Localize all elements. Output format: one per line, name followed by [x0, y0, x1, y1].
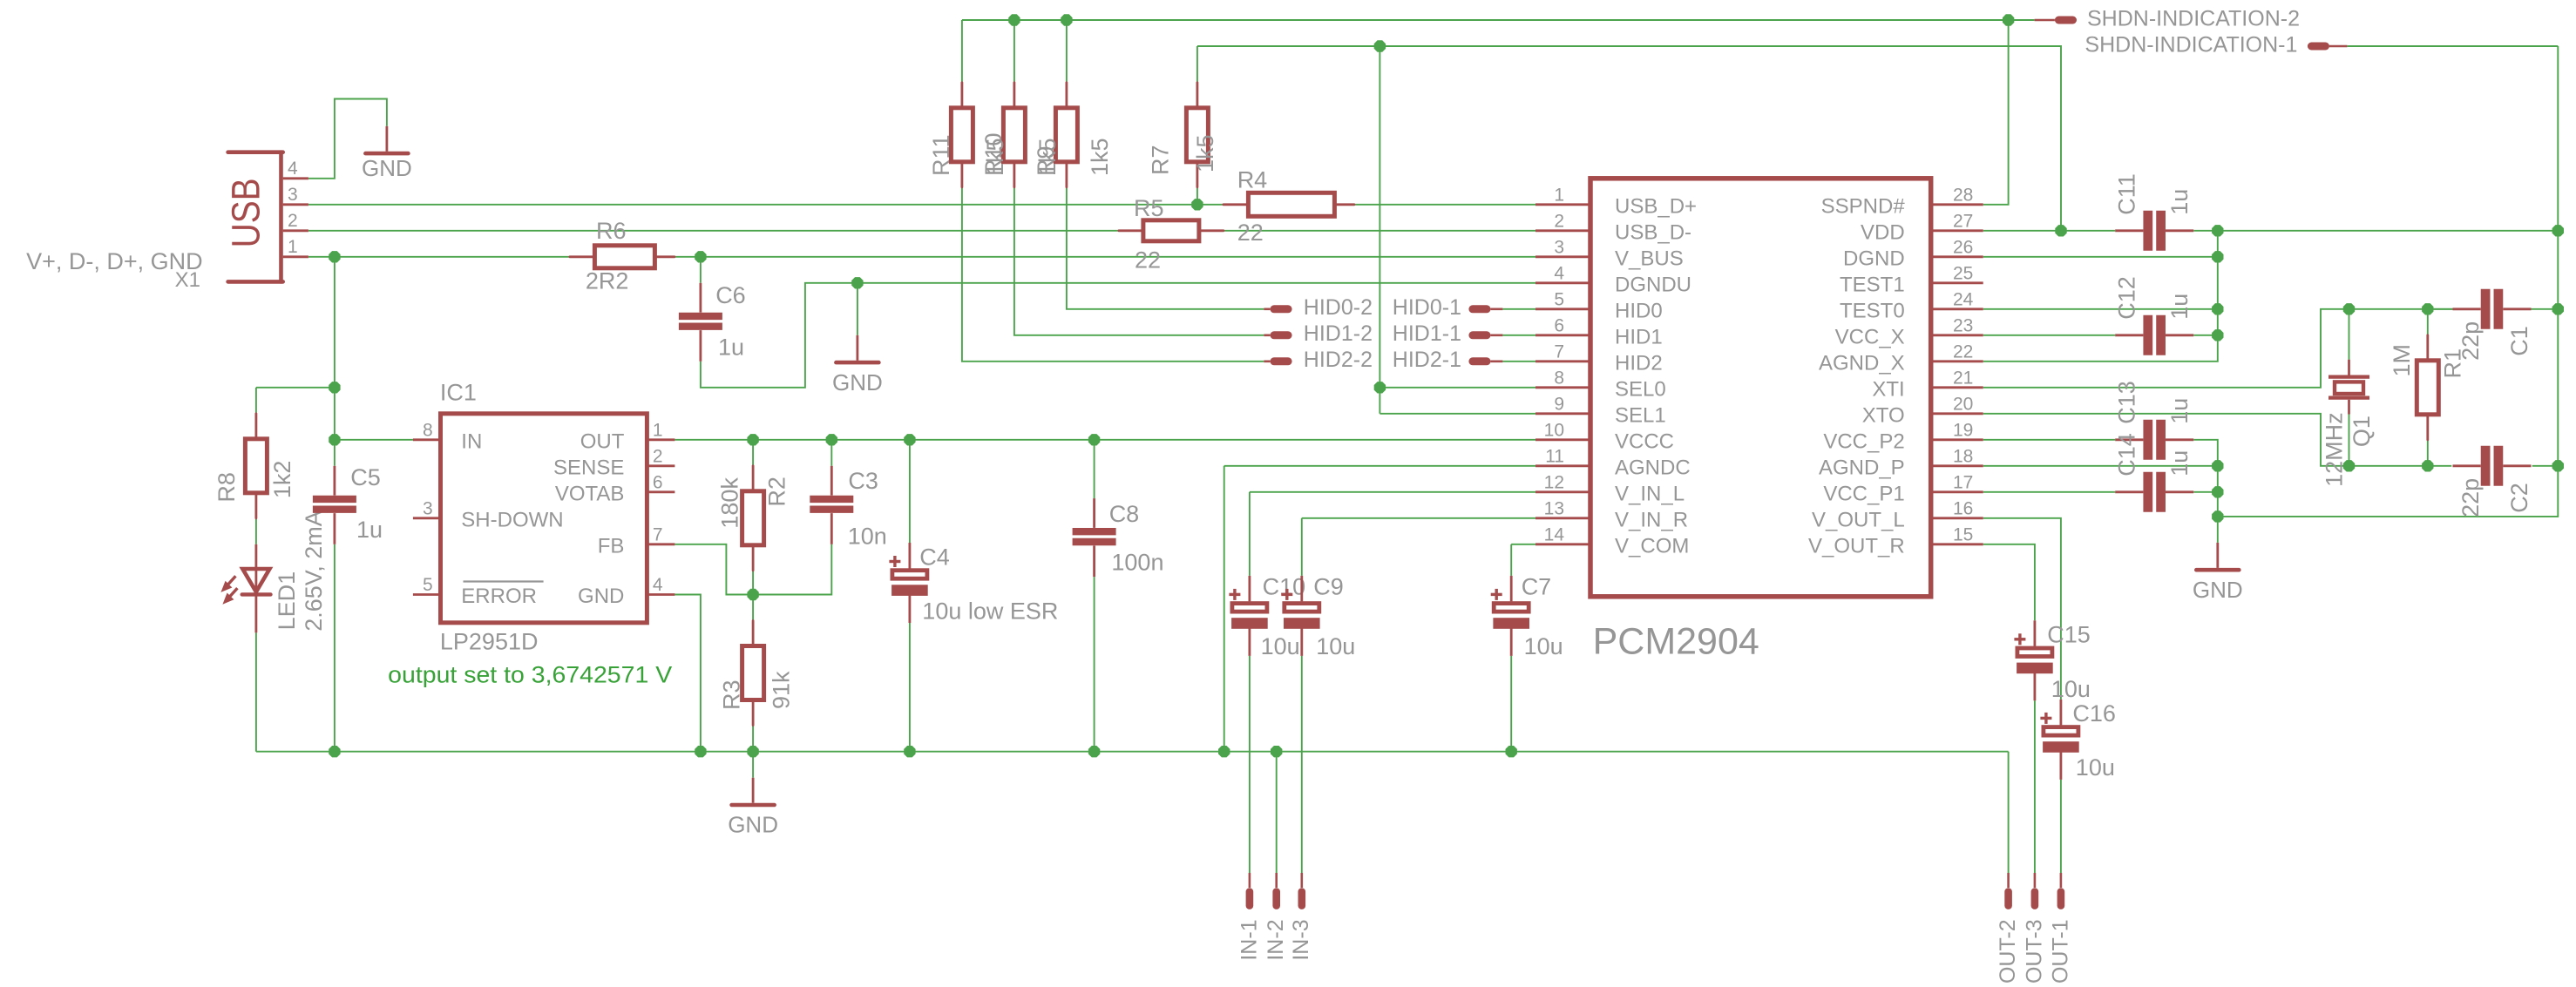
svg-text:17: 17 — [1953, 472, 1973, 492]
svg-text:HID1: HID1 — [1615, 326, 1663, 349]
svg-text:VCC_P2: VCC_P2 — [1823, 430, 1904, 454]
svg-text:18: 18 — [1953, 446, 1973, 466]
svg-text:PCM2904: PCM2904 — [1593, 621, 1759, 663]
svg-text:V_OUT_L: V_OUT_L — [1812, 509, 1905, 532]
svg-text:HID0: HID0 — [1615, 300, 1663, 323]
svg-text:R7: R7 — [1147, 145, 1173, 175]
svg-text:4: 4 — [653, 575, 663, 595]
svg-text:22p: 22p — [2457, 478, 2484, 517]
svg-text:3: 3 — [288, 185, 298, 205]
svg-text:1u: 1u — [2166, 294, 2193, 320]
svg-text:XTO: XTO — [1862, 404, 1905, 428]
svg-text:IN-1: IN-1 — [1237, 919, 1261, 960]
svg-text:22p: 22p — [2457, 321, 2484, 361]
svg-text:10n: 10n — [848, 524, 887, 550]
svg-text:10u: 10u — [1316, 633, 1355, 659]
svg-text:GND: GND — [832, 369, 883, 395]
svg-text:LP2951D: LP2951D — [440, 629, 539, 655]
svg-text:OUT-2: OUT-2 — [1996, 919, 2020, 983]
svg-text:DGNDU: DGNDU — [1615, 274, 1691, 297]
svg-text:20: 20 — [1953, 394, 1973, 414]
svg-text:HID2: HID2 — [1615, 352, 1663, 375]
svg-text:C4: C4 — [919, 544, 950, 571]
svg-text:VCC_X: VCC_X — [1835, 326, 1905, 349]
svg-text:2.65V, 2mA: 2.65V, 2mA — [301, 510, 327, 632]
svg-text:DGND: DGND — [1843, 247, 1905, 271]
svg-text:TEST0: TEST0 — [1840, 300, 1905, 323]
svg-text:C2: C2 — [2506, 483, 2532, 513]
svg-text:GND: GND — [362, 155, 412, 181]
svg-text:C13: C13 — [2114, 381, 2140, 424]
svg-text:R5: R5 — [1134, 195, 1164, 221]
svg-text:IN: IN — [461, 429, 482, 453]
svg-text:C1: C1 — [2506, 326, 2532, 356]
svg-text:V_OUT_R: V_OUT_R — [1808, 535, 1905, 558]
svg-text:C6: C6 — [715, 282, 746, 308]
svg-text:11: 11 — [1545, 446, 1564, 466]
svg-text:1u: 1u — [2166, 450, 2193, 477]
svg-text:13: 13 — [1544, 498, 1564, 518]
svg-text:2: 2 — [1554, 211, 1564, 231]
svg-text:XTI: XTI — [1872, 378, 1904, 402]
svg-text:R2: R2 — [764, 477, 790, 507]
svg-text:24: 24 — [1953, 289, 1974, 309]
svg-text:C3: C3 — [848, 468, 878, 494]
svg-text:1u: 1u — [2166, 398, 2193, 424]
svg-text:C7: C7 — [1522, 574, 1552, 600]
svg-text:AGND_P: AGND_P — [1819, 456, 1905, 480]
svg-text:19: 19 — [1953, 420, 1973, 440]
svg-text:1u: 1u — [356, 517, 383, 543]
svg-text:C8: C8 — [1109, 501, 1140, 527]
svg-text:1u: 1u — [718, 335, 744, 361]
svg-text:USB_D+: USB_D+ — [1615, 195, 1697, 219]
svg-text:C14: C14 — [2114, 433, 2140, 477]
svg-text:USB_D-: USB_D- — [1615, 221, 1691, 245]
svg-text:R11: R11 — [928, 134, 954, 176]
svg-text:GND: GND — [578, 585, 624, 608]
svg-text:VDD: VDD — [1861, 221, 1905, 245]
svg-text:16: 16 — [1953, 498, 1973, 518]
svg-text:SSPND#: SSPND# — [1821, 195, 1906, 219]
svg-text:V_BUS: V_BUS — [1615, 247, 1684, 271]
svg-text:VOTAB: VOTAB — [555, 482, 625, 505]
svg-text:1k5: 1k5 — [1087, 138, 1113, 176]
svg-text:HID2-1: HID2-1 — [1393, 348, 1461, 372]
svg-text:FB: FB — [598, 534, 625, 558]
svg-text:AGNDC: AGNDC — [1615, 456, 1691, 480]
svg-text:C5: C5 — [350, 464, 381, 490]
svg-text:OUT-3: OUT-3 — [2022, 919, 2046, 983]
svg-text:2: 2 — [288, 211, 298, 231]
svg-text:LED1: LED1 — [274, 571, 300, 631]
svg-text:1M: 1M — [2389, 344, 2415, 377]
svg-text:22: 22 — [1237, 220, 1264, 246]
svg-text:1: 1 — [288, 237, 298, 257]
svg-text:5: 5 — [423, 575, 433, 595]
svg-text:SHDN-INDICATION-2: SHDN-INDICATION-2 — [2087, 6, 2300, 30]
svg-text:10u: 10u — [1524, 633, 1563, 659]
svg-text:9: 9 — [1554, 394, 1564, 414]
svg-text:OUT-1: OUT-1 — [2048, 919, 2072, 983]
svg-text:output set to 3,6742571 V: output set to 3,6742571 V — [388, 662, 672, 688]
svg-text:10: 10 — [1544, 420, 1564, 440]
svg-text:V_IN_L: V_IN_L — [1615, 483, 1685, 506]
svg-text:91k: 91k — [768, 671, 794, 709]
svg-text:VCC_P1: VCC_P1 — [1823, 483, 1904, 506]
svg-text:10u: 10u — [2051, 676, 2091, 702]
svg-text:6: 6 — [1554, 315, 1564, 335]
svg-text:GND: GND — [728, 812, 778, 838]
svg-text:SHDN-INDICATION-1: SHDN-INDICATION-1 — [2085, 32, 2297, 57]
svg-text:1u: 1u — [2166, 189, 2193, 215]
svg-text:IN-2: IN-2 — [1264, 919, 1288, 960]
svg-text:SH-DOWN: SH-DOWN — [461, 508, 563, 531]
svg-text:25: 25 — [1953, 263, 1973, 283]
svg-text:VCCC: VCCC — [1615, 430, 1674, 454]
svg-text:C15: C15 — [2047, 622, 2091, 648]
svg-text:SEL1: SEL1 — [1615, 404, 1666, 428]
svg-text:8: 8 — [1554, 368, 1564, 388]
svg-text:HID1-1: HID1-1 — [1393, 321, 1461, 346]
svg-text:28: 28 — [1953, 185, 1973, 205]
svg-text:10u low ESR: 10u low ESR — [922, 598, 1058, 625]
svg-text:C11: C11 — [2114, 173, 2140, 215]
svg-text:ERROR: ERROR — [461, 585, 537, 608]
svg-text:12: 12 — [1544, 472, 1564, 492]
svg-text:1: 1 — [1554, 185, 1564, 205]
svg-text:R4: R4 — [1237, 167, 1268, 193]
svg-text:4: 4 — [1554, 263, 1564, 283]
svg-text:HID1-2: HID1-2 — [1304, 321, 1373, 346]
svg-text:15: 15 — [1953, 524, 1973, 544]
svg-text:C16: C16 — [2072, 700, 2116, 727]
svg-text:X1: X1 — [175, 268, 200, 292]
svg-text:Q1: Q1 — [2349, 416, 2375, 447]
svg-text:26: 26 — [1953, 237, 1973, 257]
svg-text:R6: R6 — [596, 218, 627, 244]
svg-text:7: 7 — [653, 524, 663, 544]
svg-text:21: 21 — [1953, 368, 1973, 388]
svg-text:6: 6 — [653, 472, 663, 492]
svg-text:TEST1: TEST1 — [1840, 274, 1905, 297]
svg-text:1k5: 1k5 — [1192, 134, 1218, 172]
svg-text:1: 1 — [653, 420, 663, 440]
svg-text:10u: 10u — [2076, 754, 2115, 781]
svg-text:SENSE: SENSE — [553, 456, 624, 479]
svg-text:8: 8 — [423, 420, 433, 440]
svg-text:3: 3 — [1554, 237, 1564, 257]
svg-text:HID2-2: HID2-2 — [1304, 348, 1373, 372]
svg-text:2: 2 — [653, 446, 663, 466]
svg-text:14: 14 — [1544, 524, 1565, 544]
svg-text:V_COM: V_COM — [1615, 535, 1689, 558]
svg-text:USB: USB — [224, 178, 268, 247]
svg-text:180k: 180k — [716, 477, 742, 529]
svg-text:22: 22 — [1135, 247, 1161, 274]
svg-text:SEL0: SEL0 — [1615, 378, 1666, 402]
svg-text:7: 7 — [1554, 341, 1564, 362]
svg-text:C12: C12 — [2114, 276, 2140, 320]
svg-text:1k2: 1k2 — [269, 461, 295, 499]
svg-text:23: 23 — [1953, 315, 1973, 335]
svg-text:22: 22 — [1953, 341, 1973, 362]
svg-text:2R2: 2R2 — [586, 268, 629, 294]
svg-text:C9: C9 — [1313, 574, 1344, 600]
svg-text:R3: R3 — [719, 679, 745, 710]
svg-text:GND: GND — [2193, 577, 2243, 603]
svg-text:27: 27 — [1953, 211, 1973, 231]
svg-text:R10: R10 — [980, 132, 1007, 176]
svg-text:12MHz: 12MHz — [2321, 412, 2347, 487]
svg-text:AGND_X: AGND_X — [1819, 352, 1905, 375]
svg-text:4: 4 — [288, 159, 298, 179]
svg-text:R9: R9 — [1033, 145, 1059, 176]
svg-text:HID0-1: HID0-1 — [1393, 295, 1461, 320]
svg-text:HID0-2: HID0-2 — [1304, 295, 1373, 320]
svg-text:100n: 100n — [1111, 550, 1163, 576]
svg-text:3: 3 — [423, 498, 433, 518]
svg-text:R8: R8 — [214, 472, 240, 503]
svg-text:10u: 10u — [1261, 633, 1300, 659]
svg-text:IC1: IC1 — [440, 380, 477, 406]
svg-text:OUT: OUT — [580, 429, 625, 453]
svg-text:V_IN_R: V_IN_R — [1615, 509, 1688, 532]
svg-text:IN-3: IN-3 — [1289, 919, 1313, 960]
svg-text:5: 5 — [1554, 289, 1564, 309]
